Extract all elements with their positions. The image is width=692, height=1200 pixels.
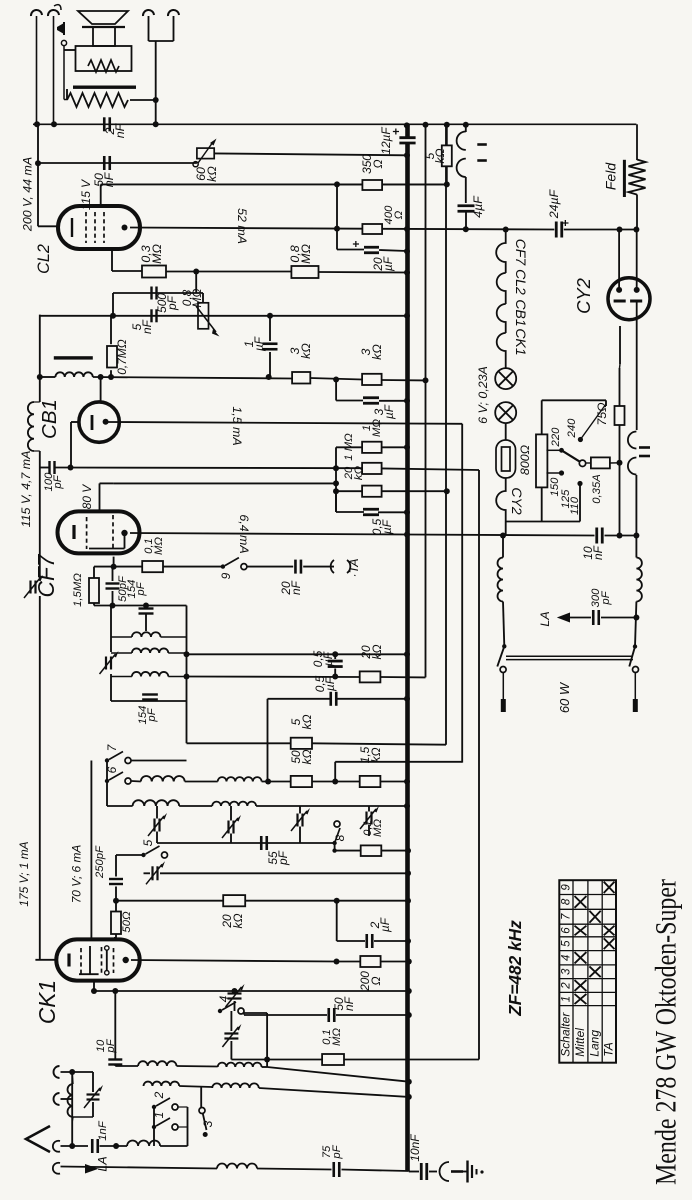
svg-text:LA: LA (96, 1156, 110, 1171)
capacitor 75pF (334, 1162, 340, 1177)
CY2 cathode dots (616, 287, 640, 293)
wire fuse to CY2 (610, 462, 620, 464)
svg-text:nF: nF (289, 580, 303, 595)
label 0,8 MOhm (288, 244, 313, 264)
junction 3k mid (333, 377, 339, 383)
switch column vertical (106, 761, 108, 807)
junction anode 2uF (334, 959, 340, 965)
svg-text:µF: µF (378, 917, 392, 932)
wire right terminals join (148, 16, 150, 41)
vertical C-E (267, 699, 269, 782)
wire fuse line (586, 462, 591, 464)
resistor 0,3 MOhm (142, 266, 166, 278)
terminal 150 (559, 470, 564, 475)
heater chain CB1 bump (497, 304, 506, 333)
svg-text:Schalter: Schalter (559, 1012, 573, 1057)
switch column left (153, 1107, 155, 1146)
junction row2 bus (406, 1094, 412, 1100)
coil mains choke L (498, 558, 503, 602)
label 3 kOhm a (288, 343, 313, 359)
capacitor 50nF osc (329, 1008, 335, 1022)
selector wiper circle (579, 460, 585, 466)
switch table headers (559, 1012, 616, 1057)
svg-text:kΩ: kΩ (370, 645, 384, 660)
CY2 heater arc top (628, 432, 637, 449)
wire CL2 anode line (130, 228, 337, 229)
junction IFT1 a (110, 603, 116, 609)
wire coil5 right (160, 1145, 187, 1147)
wire anode rail (407, 535, 595, 536)
wire 2uF to bus (374, 940, 408, 942)
svg-text:1 MΩ: 1 MΩ (343, 433, 355, 461)
junction 1uF bottom (266, 374, 272, 380)
phone jack (440, 1162, 464, 1181)
CK1 grid 2 (101, 947, 103, 973)
LA arrow mains (557, 613, 570, 623)
wire CL2 bottom lead (111, 249, 113, 271)
capacitor 55pF (261, 836, 267, 850)
wire 4uF bottom (465, 211, 467, 229)
vertical sw3 top (200, 1086, 202, 1108)
svg-text:kΩ: kΩ (300, 715, 314, 730)
vertical osc grid (115, 855, 117, 877)
svg-text:6: 6 (561, 927, 573, 934)
svg-text:CK1: CK1 (513, 328, 529, 355)
svg-text:kΩ: kΩ (231, 914, 245, 929)
capacitor 1nF (92, 1139, 98, 1153)
resistor 50 Ohm (111, 912, 121, 935)
wire C (268, 698, 331, 700)
wire ant bottom line (61, 1145, 89, 1147)
CL2 cathode (71, 218, 73, 237)
capacitor 1uF (263, 344, 278, 350)
trimmer mixer b stub top (230, 806, 232, 821)
junction 20k v2 (444, 488, 450, 494)
antenna hook 4 (53, 1163, 60, 1174)
switch 9 (221, 558, 247, 570)
wire left rail mid (39, 315, 41, 402)
svg-text:+: + (389, 128, 403, 135)
label 3 kOhm b (359, 344, 384, 360)
svg-text:pF: pF (331, 1144, 343, 1159)
junction coil 0.1M (108, 374, 114, 380)
junction A bus (404, 651, 410, 657)
speaker cone (78, 11, 128, 24)
switch 4 (218, 1002, 244, 1014)
label 3uF (372, 404, 396, 419)
wire chain a (505, 423, 507, 440)
junction E FE (332, 779, 338, 785)
label 100pF (43, 472, 64, 492)
label 350 Ohm (360, 154, 385, 174)
junction ant bottom (69, 1143, 75, 1149)
svg-text:5: 5 (561, 940, 573, 947)
trimmer antenna (84, 1085, 103, 1108)
junction 1nF (113, 1143, 119, 1149)
svg-text:Mittel: Mittel (573, 1028, 587, 1057)
resistor 1 MOhm a (362, 442, 382, 453)
junction E CE (265, 779, 271, 785)
wire 1.5M top (93, 567, 95, 578)
svg-text:CL2: CL2 (35, 244, 53, 274)
wire plug sleeve down (63, 46, 65, 100)
wire coil line right (93, 377, 292, 379)
vertical F-E (334, 762, 336, 782)
wire 100pF line b (55, 467, 362, 470)
junction IFT1 B (184, 674, 190, 680)
wire IFT1 coil3 line (111, 676, 132, 678)
wire Feld bottom (636, 195, 638, 230)
trimmer d stub bot (368, 825, 370, 837)
wire choke L top (502, 536, 504, 558)
wire 0.1M top lead (110, 316, 112, 344)
wire CK1 anode line (131, 960, 337, 962)
wire 0.1M bottom lead (110, 370, 112, 377)
wire CY2 down a (619, 326, 621, 364)
svg-text:pF: pF (105, 1038, 117, 1053)
switch 1 (152, 1118, 178, 1130)
svg-text:MΩ: MΩ (331, 1028, 343, 1046)
wire rail below trimmer (39, 596, 41, 960)
junction rail choke a (500, 533, 506, 539)
vertical trim2 top (230, 1011, 232, 1031)
coil LA (217, 1164, 257, 1169)
junction rail c (617, 533, 623, 539)
svg-text:µF: µF (380, 519, 394, 534)
wire row2 line b (259, 1088, 409, 1097)
junction 115V a (334, 181, 340, 187)
LA arrow (85, 1164, 99, 1174)
coil mixer b (212, 802, 256, 806)
svg-text:220: 220 (550, 427, 562, 448)
wire B (187, 676, 360, 679)
junction mains L (502, 644, 506, 648)
wire trim line (160, 872, 408, 874)
svg-text:8: 8 (333, 834, 347, 841)
wire D (187, 742, 291, 744)
coil ant tune a (144, 1082, 180, 1086)
mains switch L (497, 646, 506, 712)
wire 1uF to coil line (269, 352, 271, 377)
label 500pF (155, 293, 179, 313)
heater chain CL2 bump (497, 273, 506, 304)
wire 115V line (101, 183, 447, 185)
switch table grid (559, 880, 616, 1062)
junction C bus (404, 696, 410, 702)
mains cord (506, 656, 633, 659)
svg-text:250pF: 250pF (94, 845, 106, 879)
junction E bus (404, 779, 410, 785)
wire IFT1 coil3 right (168, 676, 186, 678)
wire row2 line a (179, 1086, 212, 1087)
wire 0.5uF stub down (335, 491, 337, 512)
label 0,1 MOhm osc (321, 1028, 343, 1046)
svg-text:CY2: CY2 (509, 487, 525, 514)
wire coil row1 d (267, 1067, 409, 1082)
TA pickup jack (331, 560, 351, 573)
wire 0.5uF AB bottom (334, 669, 336, 677)
svg-text:200 V, 44 mA: 200 V, 44 mA (21, 157, 35, 232)
wire CB1 cathode stub (71, 421, 80, 423)
resistor 50 kOhm (291, 776, 312, 787)
vertical sw4 column (266, 1013, 268, 1067)
junction CF7 bottom (111, 564, 117, 570)
svg-text:4: 4 (561, 955, 573, 961)
junction AVC bus (404, 313, 410, 319)
wire chain bottom (505, 522, 507, 536)
wire 50 Ohm to tube (115, 934, 117, 941)
junction 0.1M bus (405, 848, 411, 854)
wire 1nF right (100, 1145, 128, 1147)
junction 3uF bus (404, 398, 410, 404)
capacitor 154pF bottom (142, 695, 158, 700)
potentiometer 0,8 MOhm volume (196, 303, 220, 337)
svg-text:115 V: 115 V (79, 179, 93, 210)
junction 0.8M bus (404, 270, 410, 276)
wire G b (179, 805, 212, 807)
tube CK1 envelope (56, 939, 139, 980)
svg-text:kΩ: kΩ (433, 149, 447, 164)
wire heater top lead (465, 124, 467, 132)
capacitor 5nF (152, 309, 157, 322)
wire LA line (61, 1167, 218, 1169)
switch 7 (105, 752, 131, 764)
CL2 grid 1 (85, 212, 87, 243)
svg-text:80 V: 80 V (80, 484, 94, 510)
CK1 cathode (67, 954, 70, 967)
svg-text:µF: µF (382, 404, 396, 419)
antenna chevron (26, 1126, 50, 1152)
trimmer mixer a (148, 813, 167, 836)
trimmer osc 2 (222, 1024, 241, 1047)
wire to earth (463, 1171, 467, 1173)
wire 50nF to bus (336, 1014, 409, 1016)
wire 10pF bottom (114, 1065, 116, 1067)
svg-text:4µF: 4µF (471, 195, 485, 218)
wire 80V stub (100, 482, 114, 484)
wire 60k to bus (214, 153, 407, 155)
wire choke L bottom (503, 602, 504, 647)
wire 500pF drop (112, 293, 114, 316)
junction mid column b (333, 480, 339, 486)
junction 0.1M osc (264, 1057, 270, 1063)
wire ant trim join (73, 1116, 93, 1118)
junction 2uF branch (334, 898, 340, 904)
switch column right (187, 1107, 189, 1146)
wire tap 150 (546, 472, 561, 474)
resistor 0,8 MOhm (291, 266, 318, 278)
svg-text:nF: nF (140, 319, 154, 334)
wire coil line left (40, 376, 56, 378)
junction IFT1 A (184, 651, 190, 657)
wire to switch 9 (163, 566, 223, 568)
junction 20k bus (405, 898, 411, 904)
label 200 Ohm (358, 971, 383, 992)
wire CB1 cathode drop (70, 422, 72, 468)
capacitor 0,5uF screen (363, 509, 379, 515)
wire pot top lead (195, 272, 197, 294)
terminal 240 (578, 437, 583, 442)
svg-text:kΩ: kΩ (300, 750, 314, 765)
svg-text:9: 9 (219, 572, 233, 579)
wire IFT1 left lower (110, 674, 112, 701)
switch 5 (141, 846, 167, 858)
resistor 3 kOhm a (292, 372, 310, 384)
resistor 5 kOhm a (291, 738, 312, 749)
wire sw1 stub (178, 1126, 188, 1128)
trimmer band d (360, 806, 379, 829)
svg-text:MΩ: MΩ (190, 289, 204, 308)
vertical 20uF branch (336, 229, 338, 250)
wire CF7 anode line (130, 533, 407, 535)
rectifier heater arc bottom (457, 159, 466, 177)
capacitor 500pF (152, 287, 157, 300)
trimmer mixer a stub top (156, 806, 158, 819)
svg-text:1nF: 1nF (97, 1120, 109, 1141)
wire ant mid (61, 1098, 74, 1100)
wire CK1 cathode lead (35, 959, 56, 961)
label Feld underline (623, 160, 626, 197)
wire E c (262, 781, 291, 783)
junction B+ heater (503, 227, 509, 233)
coil CB1 grid (55, 372, 92, 377)
junction B+ a (334, 226, 340, 232)
antenna hook 1 (54, 1066, 60, 1078)
wire 75pF to bus (342, 1170, 409, 1172)
capacitor 2uF (367, 934, 373, 948)
wire sw5 wire (116, 854, 144, 856)
svg-text:Ω: Ω (393, 210, 405, 219)
junction IFT1 b (143, 603, 149, 609)
wire 1M branch (336, 446, 362, 448)
svg-text:1,5MΩ: 1,5MΩ (72, 573, 84, 607)
label 75pF (321, 1144, 343, 1159)
resistor 400 Ohm (362, 224, 382, 234)
svg-text:µF: µF (321, 651, 335, 666)
capacitor 4uF (458, 206, 475, 212)
wire 75 top (619, 364, 622, 368)
wire choke R bottom (635, 602, 636, 647)
junction fuse (617, 460, 623, 466)
wire CL2 g2 up (100, 184, 102, 206)
junction trim bus (405, 870, 411, 876)
label 5 kOhm a (289, 715, 314, 730)
junction 1Ma bus (404, 444, 410, 450)
wire E d (312, 781, 360, 783)
coil IFT1 secondary a (132, 648, 168, 653)
junction rail coil (37, 374, 43, 380)
resistor 1,5 kOhm (360, 776, 381, 787)
label 0,5uF C (313, 675, 337, 692)
resistor 3 kOhm b (362, 374, 382, 385)
svg-text:nF: nF (342, 996, 356, 1011)
junction 200V corner (35, 160, 41, 166)
wire zigzag left up (66, 89, 68, 100)
svg-text:µF: µF (252, 336, 266, 351)
junction rail d (633, 533, 639, 539)
wire G c (256, 805, 407, 807)
wire B to v1 (380, 676, 425, 678)
svg-text:pF: pF (52, 474, 64, 489)
wire 50pF top (112, 567, 114, 581)
wire 200V rail upper (37, 124, 39, 163)
wire selector top (542, 399, 606, 401)
svg-text:9: 9 (561, 884, 573, 891)
output transformer box (76, 46, 132, 71)
junction A 0.5uF (332, 651, 338, 657)
svg-text:kΩ: kΩ (205, 166, 219, 182)
label 1 MOhm a (361, 419, 383, 437)
wire 50nF line (38, 162, 197, 164)
wire trim left stub (144, 872, 151, 874)
svg-text:CB1: CB1 (513, 299, 529, 326)
label 0,5uF AB (311, 650, 335, 667)
junction ant top (69, 1069, 75, 1075)
coil antenna CB1 (28, 402, 34, 451)
label 10nF mains (581, 545, 605, 560)
wire ant top (61, 1071, 94, 1073)
vertical 10pF (114, 991, 116, 1059)
wire F (335, 761, 462, 763)
capacitor 24uF (556, 222, 562, 238)
wire choke R top (635, 536, 637, 558)
wire 50pF bottom (112, 591, 114, 606)
wire trim1 bottom (234, 1001, 236, 1011)
svg-text:Mende 278 GW Oktoden-Super: Mende 278 GW Oktoden-Super (650, 879, 683, 1185)
junction AVC 1uF (267, 313, 273, 319)
junction CY2 b (633, 227, 639, 233)
svg-text:0,35A: 0,35A (591, 474, 603, 504)
svg-text:TA: TA (602, 1042, 616, 1056)
vertical v2b top (446, 124, 448, 145)
resistor 75 Ohm (615, 406, 625, 425)
wire CY2 lead a (618, 230, 620, 290)
wire 0.3M to 0.8M (166, 271, 291, 273)
IFT1 left vertical (110, 606, 112, 653)
resistor 20 kOhm diode (360, 671, 381, 682)
svg-text:pF: pF (135, 581, 147, 596)
coil osc a (141, 776, 185, 781)
barretter CY2 (496, 440, 516, 478)
svg-text:MΩ: MΩ (371, 419, 383, 437)
vertical ant ground (71, 1072, 73, 1146)
label 5 kOhm HT (423, 149, 447, 164)
wire 20uF stub (337, 249, 364, 251)
label 20uF (371, 256, 395, 271)
CF7 anode lead (124, 533, 126, 549)
wire 350 line a (337, 183, 362, 185)
resistor 350 Ohm (362, 180, 382, 190)
CK1 anode dot (123, 957, 129, 963)
svg-text:70 V; 6 mA: 70 V; 6 mA (69, 845, 83, 904)
label 154pF top (126, 580, 147, 599)
svg-text:10nF: 10nF (408, 1134, 422, 1162)
switch table numbers (561, 884, 573, 1003)
wire selector common (506, 521, 580, 523)
label 0,3 MOhm (139, 244, 164, 264)
junction speaker return (153, 97, 159, 103)
CB1 anode dot (103, 419, 109, 425)
CY2 heater bars (639, 448, 650, 457)
antenna hook 2 (54, 1093, 60, 1105)
wire terminal 1 down (36, 16, 38, 124)
wire right terminal 2 down (173, 16, 175, 41)
wire A (187, 653, 408, 655)
vertical CY2 right drop (636, 301, 638, 430)
svg-text:nF: nF (113, 122, 127, 138)
resistor 20 kOhm screen (362, 486, 382, 497)
wire osc line (94, 990, 409, 992)
